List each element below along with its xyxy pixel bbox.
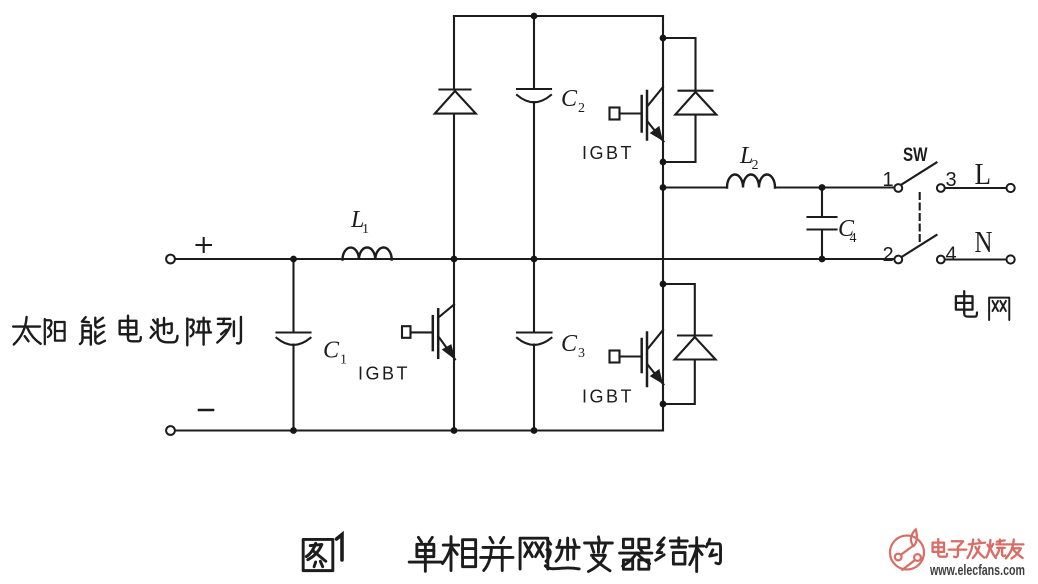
svg-text:C: C <box>561 331 578 357</box>
svg-text:4: 4 <box>850 231 857 246</box>
svg-text:2: 2 <box>882 244 893 266</box>
svg-text:3: 3 <box>945 169 956 191</box>
svg-text:4: 4 <box>945 244 956 266</box>
svg-text:1: 1 <box>340 353 347 368</box>
svg-text:IGBT: IGBT <box>582 143 634 163</box>
svg-text:2: 2 <box>578 101 585 116</box>
svg-text:IGBT: IGBT <box>358 364 410 384</box>
svg-text:C: C <box>323 338 340 364</box>
svg-text:IGBT: IGBT <box>582 387 634 407</box>
svg-text:2: 2 <box>752 158 759 173</box>
svg-text:1: 1 <box>882 169 893 191</box>
svg-text:C: C <box>561 86 578 112</box>
svg-text:3: 3 <box>578 346 585 361</box>
svg-text:www.elecfans.com: www.elecfans.com <box>929 562 1025 579</box>
svg-text:1: 1 <box>362 222 369 237</box>
svg-text:SW: SW <box>903 145 928 166</box>
svg-text:N: N <box>975 224 993 259</box>
svg-text:L: L <box>975 156 992 191</box>
